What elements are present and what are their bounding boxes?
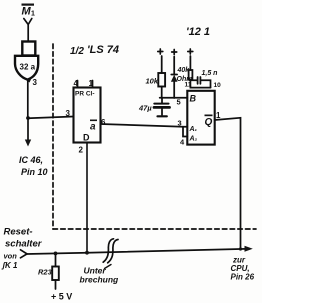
svg-text:10k: 10k: [146, 77, 159, 86]
svg-text:1: 1: [31, 11, 35, 18]
node at A1/A2 split: [183, 127, 187, 137]
svg-text:Pin 10: Pin 10: [21, 167, 48, 177]
svg-text:1,5 n: 1,5 n: [202, 70, 218, 77]
svg-text:von: von: [4, 252, 18, 261]
wire R23 to +5V: [55, 280, 57, 289]
svg-text:D: D: [83, 133, 90, 143]
Q-bar output label of 121: [205, 115, 213, 129]
label 40k Ohm: [177, 67, 193, 83]
svg-text:Q: Q: [205, 117, 213, 128]
wire FF pin6 to monoflop inputs: [101, 124, 184, 127]
svg-text:2: 2: [79, 146, 84, 155]
diode D1: [171, 74, 177, 76]
svg-text:'12 1: '12 1: [186, 26, 210, 38]
svg-text:1: 1: [89, 79, 94, 88]
capacitor 47u: [161, 98, 163, 104]
interruption squiggle marks: [103, 239, 113, 262]
svg-text:Pin 26: Pin 26: [231, 273, 255, 282]
+5V plus symbol 2: [172, 50, 177, 55]
FF pin 1 stub (clear): [92, 81, 94, 88]
FF pin 4 stub (preset): [77, 81, 79, 88]
resistor R23: [55, 253, 57, 266]
wire resistor 10k to bus: [161, 87, 163, 99]
wire FF pin2 down to reset line: [86, 143, 88, 253]
node Rext/Cext junction: [190, 80, 210, 88]
svg-text:3: 3: [33, 78, 38, 87]
node: 121 output junction: [239, 247, 242, 250]
wire node to FF pin 3: [28, 117, 74, 119]
wire plus3 to resistor Rext: [189, 56, 191, 70]
svg-text:1/2: 1/2: [70, 46, 84, 57]
flip-flop U1 (1/2 74LS74): [74, 88, 101, 143]
wire node down to IC46 pin 10 (arrow): [27, 118, 29, 141]
svg-text:6: 6: [101, 118, 106, 127]
svg-text:brechung: brechung: [80, 275, 120, 285]
svg-text:5: 5: [177, 98, 181, 107]
net M1 label: [22, 4, 36, 18]
svg-text:A₁: A₁: [189, 126, 198, 133]
wire plus2 to diode: [173, 57, 175, 75]
+5V plus symbol 3: [188, 49, 193, 54]
main reset wire: [27, 249, 250, 254]
bus to pin 5 (B input): [160, 97, 188, 99]
dashed boundary vertical: [52, 44, 54, 229]
svg-text:32 a: 32 a: [20, 63, 36, 72]
+5V plus symbol 1: [158, 49, 163, 54]
svg-text:M: M: [22, 6, 32, 18]
svg-text:ʃK 1: ʃK 1: [1, 261, 19, 270]
label zur CPU Pin 26: [231, 256, 255, 282]
svg-text:4: 4: [74, 79, 79, 88]
dashed boundary horizontal: [53, 228, 256, 230]
capacitor 1,5n (Cext) loop: [190, 80, 210, 87]
svg-text:Reset-: Reset-: [4, 227, 33, 238]
svg-text:R23: R23: [38, 268, 53, 277]
svg-text:+ 5 V: + 5 V: [51, 292, 72, 302]
label IC 46, Pin 10: [19, 155, 48, 177]
svg-text:10: 10: [214, 82, 222, 89]
wire plus1 to resistor 10k: [161, 56, 163, 73]
label Unterbrechung with pointer: [80, 266, 120, 285]
svg-text:3: 3: [66, 109, 71, 118]
monoflop U2 (74121): [187, 91, 214, 145]
svg-text:11: 11: [185, 82, 192, 89]
svg-text:'LS 74: 'LS 74: [87, 44, 119, 56]
node: junction gate output / FF clock / IC46: [26, 116, 30, 120]
svg-text:3: 3: [178, 119, 182, 128]
svg-text:a: a: [90, 122, 96, 133]
resistor Rext (timing): [189, 70, 193, 80]
wire: M1 input pair into gate: [24, 19, 32, 42]
node: FF D junction: [85, 251, 89, 255]
wire gate output down to node: [27, 81, 29, 119]
arrowhead to CPU: [245, 246, 253, 252]
label Reset-schalter von ZK 1: [1, 227, 43, 271]
wire 121 output to CPU: [215, 118, 241, 249]
FF Q-bar output label: [90, 120, 97, 133]
svg-text:PR Cl-: PR Cl-: [75, 91, 95, 98]
OR gate U32a (7432 section a): [15, 42, 38, 80]
svg-text:B: B: [190, 94, 197, 104]
label 1/2 LS74: [70, 44, 119, 57]
resistor 10k: [158, 73, 165, 87]
pin 3 of gate 32a: [25, 78, 32, 82]
svg-text:A₂: A₂: [189, 136, 198, 143]
wire start chevron from ZK1: [21, 250, 28, 258]
svg-text:IC 46,: IC 46,: [19, 155, 43, 165]
svg-text:47µ: 47µ: [138, 104, 152, 113]
node: R23 junction: [54, 252, 58, 256]
svg-text:schalter: schalter: [5, 239, 43, 250]
